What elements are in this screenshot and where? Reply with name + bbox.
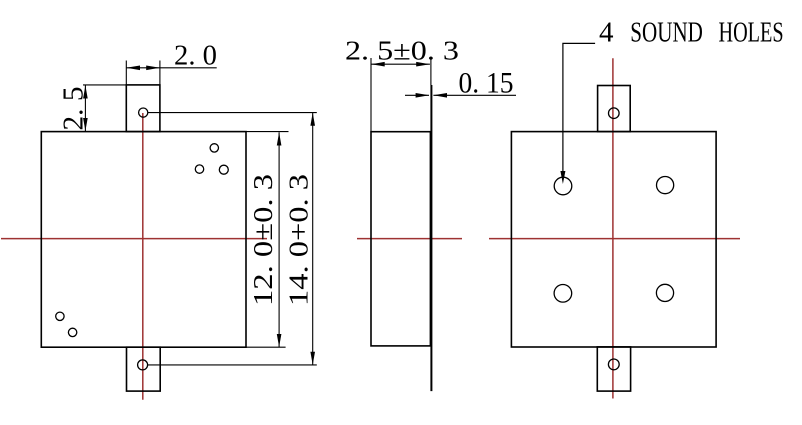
svg-text:0. 15: 0. 15 — [459, 68, 514, 100]
svg-text:2. 5: 2. 5 — [59, 87, 90, 131]
svg-text:SOUND: SOUND — [630, 17, 703, 49]
svg-text:12. 0±0. 3: 12. 0±0. 3 — [248, 174, 278, 306]
svg-text:14. 0+0. 3: 14. 0+0. 3 — [284, 174, 314, 306]
svg-text:2. 0: 2. 0 — [174, 40, 217, 72]
svg-text:2. 5±0. 3: 2. 5±0. 3 — [345, 36, 459, 66]
svg-text:HOLES: HOLES — [719, 17, 784, 49]
svg-text:4: 4 — [599, 17, 614, 49]
